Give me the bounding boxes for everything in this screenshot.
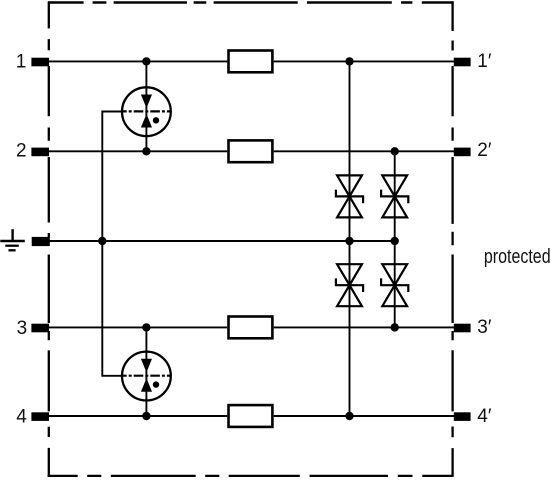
svg-text:1′: 1′ — [477, 51, 492, 72]
svg-text:3: 3 — [17, 318, 28, 339]
svg-text:4′: 4′ — [477, 406, 492, 427]
svg-text:2′: 2′ — [477, 140, 492, 161]
svg-text:3′: 3′ — [477, 317, 492, 338]
svg-text:protected: protected — [484, 245, 551, 267]
svg-text:1: 1 — [16, 52, 27, 73]
svg-text:2: 2 — [16, 141, 27, 162]
svg-text:4: 4 — [16, 407, 27, 428]
